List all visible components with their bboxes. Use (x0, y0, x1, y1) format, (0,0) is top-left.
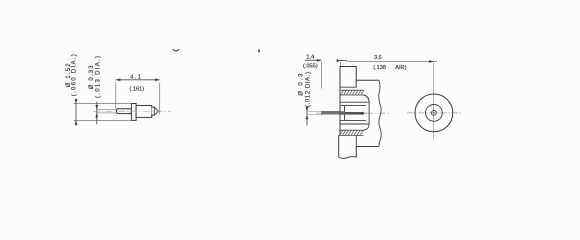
svg-text:(.161): (.161) (129, 87, 144, 93)
bullet nose tip (152, 107, 159, 115)
pin entering face (340, 111, 345, 114)
cavity lines top (340, 101, 369, 103)
svg-text:(.012 DIA.): (.012 DIA.) (305, 71, 311, 107)
socket contact bar (345, 112, 364, 115)
dimension 1.4 right arrowhead with tail (340, 60, 347, 62)
dimension Ø0.33 arrowheads (95, 105, 98, 110)
dome back wall (364, 95, 370, 130)
dimension 4.1 arrowheads (116, 78, 121, 81)
hatched wall top (340, 90, 364, 95)
bottom cap wavy end (339, 157, 357, 159)
bottom cap left edge (338, 135, 340, 157)
outer circle (415, 94, 453, 132)
cavity lines bottom (340, 123, 369, 125)
insulator line (344, 106, 346, 121)
dimension 3.5 right arrowhead (429, 60, 434, 63)
socket bar end dot (361, 112, 364, 115)
inner circle (432, 111, 437, 116)
flange (131, 104, 136, 121)
dimension 4.1 extension lines (116, 83, 160, 115)
dimension Ø1.52 arrowheads (75, 99, 78, 103)
dimension Ø0.3 dimension line (306, 106, 308, 126)
extension lines pin diameter (307, 112, 322, 115)
center dot (433, 112, 434, 113)
center pin protruding (321, 111, 340, 114)
svg-text:3.5: 3.5 (374, 55, 382, 61)
dimension Ø0.3 arrowheads (306, 107, 309, 112)
svg-text:Ø 0.33: Ø 0.33 (89, 64, 95, 89)
dimension 3.5 dimension line (347, 61, 437, 63)
break line wavy right edge (379, 80, 381, 146)
dimension Ø0.33 dimension line (96, 102, 98, 125)
bullet cone edges (154, 108, 158, 115)
bullet chamfer circle line (153, 107, 155, 115)
body outline: top cap (340, 67, 379, 93)
svg-text:Ø 0.3: Ø 0.3 (298, 72, 304, 96)
dimension 4.1 dimension line (116, 79, 160, 81)
svg-text:(.013 DIA.): (.013 DIA.) (95, 55, 101, 98)
crimp barrel (117, 109, 132, 114)
centerline section view (316, 112, 389, 114)
wire lead (97, 110, 118, 113)
body (136, 106, 152, 118)
flange top edge (340, 86, 356, 88)
svg-text:(.138 AIR): (.138 AIR) (373, 65, 406, 71)
scan artifact dot (258, 50, 260, 53)
svg-text:(.060 DIA.): (.060 DIA.) (71, 53, 77, 96)
extension line cap face (339, 62, 341, 67)
svg-text:(.055): (.055) (303, 63, 318, 69)
svg-text:4.1: 4.1 (130, 75, 142, 81)
middle circle (426, 105, 443, 122)
body step right edge bottom (355, 135, 357, 146)
dimension 1.4 left arrowhead (317, 59, 322, 62)
horizontal centerline front view (407, 112, 461, 114)
svg-text:1.4: 1.4 (306, 55, 314, 61)
left face line (339, 92, 341, 135)
dimension Ø1.52 dimension line (75, 98, 77, 126)
scan artifact tilde (173, 49, 179, 51)
dimension Ø1.52 extension lines (74, 104, 132, 121)
extension line pin tip (320, 62, 322, 89)
body bottom edge (356, 147, 379, 158)
centerline left view (93, 110, 171, 112)
vertical centerline front view (433, 62, 435, 140)
hatched wall bottom (339, 130, 364, 135)
dimension 1.4 dimension line (305, 59, 322, 61)
socket tail (364, 112, 367, 114)
